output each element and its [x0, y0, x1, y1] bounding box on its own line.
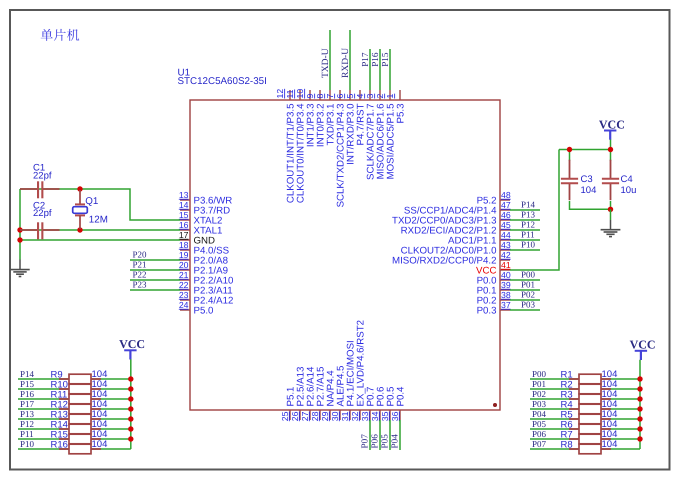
wire net P11 (left bank) [18, 438, 131, 440]
wire net P06 (right bank) [530, 438, 640, 440]
pin 25 stub [289, 410, 291, 420]
svg-text:16: 16 [179, 220, 189, 230]
node xtal1/Q1 junction [77, 227, 82, 232]
svg-text:28: 28 [310, 411, 320, 421]
pin 43 stub [500, 249, 510, 251]
wire net P06 [379, 420, 381, 450]
U1 anchor dot [493, 403, 497, 407]
svg-text:P02: P02 [521, 290, 535, 300]
svg-text:45: 45 [501, 220, 511, 230]
svg-text:Q1: Q1 [85, 196, 98, 207]
svg-text:P07: P07 [532, 439, 547, 449]
svg-text:7: 7 [325, 94, 335, 99]
svg-text:23: 23 [179, 290, 189, 300]
svg-text:P14: P14 [521, 200, 536, 210]
capacitor C2 [20, 222, 60, 239]
wire net P00 [510, 279, 540, 281]
svg-text:43: 43 [501, 240, 511, 250]
resistor R2 [569, 384, 611, 394]
pin 9 stub [319, 90, 321, 100]
node R5 rail junction [637, 416, 642, 421]
svg-text:P07: P07 [360, 434, 370, 449]
capacitor C4 [602, 160, 619, 201]
wire net P10 [510, 249, 540, 251]
wire net P15 (left bank) [18, 388, 131, 390]
pin 4 stub [369, 90, 371, 100]
node C4 top [608, 147, 613, 152]
wire cap bottom rail [570, 201, 611, 209]
wire net P22 [130, 279, 180, 281]
power VCC (left bank) [124, 350, 136, 359]
pin 48 stub [500, 199, 510, 201]
svg-text:R8: R8 [561, 440, 573, 451]
svg-text:P0.3: P0.3 [477, 305, 497, 316]
svg-text:22pf: 22pf [33, 208, 52, 219]
wire TXD-U [329, 30, 331, 90]
resistor R10 [59, 384, 101, 394]
node rail/gnd junction [17, 237, 22, 242]
node R3 rail junction [637, 396, 642, 401]
svg-text:P12: P12 [20, 419, 34, 429]
svg-text:20: 20 [179, 260, 189, 270]
resistor R14 [59, 424, 101, 434]
wire net P10 (left bank) [18, 448, 131, 450]
pin 17 stub [180, 239, 190, 241]
pin 40 stub [500, 279, 510, 281]
svg-text:P06: P06 [532, 429, 547, 439]
node R14 rail junction [128, 426, 133, 431]
svg-text:P23: P23 [133, 280, 148, 290]
wire net P05 (right bank) [530, 428, 640, 430]
node R15 rail junction [128, 436, 133, 441]
pin 20 stub [180, 269, 190, 271]
ground (decoupling) [601, 209, 621, 236]
svg-text:P00: P00 [532, 369, 547, 379]
svg-text:P13: P13 [20, 409, 35, 419]
svg-text:P03: P03 [521, 300, 536, 310]
wire net P07 [369, 420, 371, 450]
svg-text:38: 38 [501, 290, 511, 300]
capacitor C1 [20, 181, 60, 198]
pin 27 stub [309, 410, 311, 420]
wire net P03 [510, 309, 540, 311]
svg-text:40: 40 [501, 270, 511, 280]
svg-text:C4: C4 [621, 174, 633, 185]
svg-text:17: 17 [179, 230, 189, 240]
wire VCC rail (right bank) [639, 360, 641, 449]
svg-text:P16: P16 [370, 52, 380, 67]
pin 14 stub [180, 209, 190, 211]
wire net P00 (right bank) [530, 378, 640, 380]
wire net P02 (right bank) [530, 398, 640, 400]
crystal Q1 [73, 190, 88, 229]
wire C4 branch [610, 150, 612, 162]
svg-text:P03: P03 [532, 399, 547, 409]
wire net P02 [510, 299, 540, 301]
svg-text:2: 2 [375, 94, 385, 99]
wire net P07 (right bank) [530, 448, 640, 450]
resistor R3 [569, 394, 611, 404]
svg-text:5: 5 [345, 94, 355, 99]
pin 38 stub [500, 299, 510, 301]
svg-text:P04: P04 [532, 409, 547, 419]
wire net P15 [389, 49, 391, 90]
svg-text:41: 41 [501, 260, 511, 270]
svg-text:P22: P22 [133, 270, 147, 280]
svg-text:P02: P02 [532, 389, 546, 399]
wire net P14 [510, 209, 540, 211]
node C3 top [567, 147, 572, 152]
svg-text:27: 27 [300, 411, 310, 421]
wire net P14 (left bank) [18, 378, 131, 380]
svg-text:P13: P13 [521, 210, 536, 220]
wire net P12 (left bank) [18, 428, 131, 430]
pin 46 stub [500, 219, 510, 221]
svg-text:VCC: VCC [630, 338, 656, 352]
wire net P13 (left bank) [18, 418, 131, 420]
title text 单片机 [41, 29, 80, 41]
svg-text:104: 104 [581, 185, 597, 196]
resistor R12 [59, 404, 101, 414]
node R6 rail junction [637, 426, 642, 431]
svg-text:12: 12 [275, 89, 285, 99]
pin 44 stub [500, 239, 510, 241]
pin 45 stub [500, 229, 510, 231]
svg-text:4: 4 [355, 94, 365, 99]
svg-text:R16: R16 [51, 440, 68, 451]
pin 37 stub [500, 309, 510, 311]
pin 36 stub [399, 410, 401, 420]
svg-text:48: 48 [501, 190, 511, 200]
node R9 rail junction [128, 376, 133, 381]
pin 10 stub [309, 90, 311, 100]
wire net P16 (left bank) [18, 398, 131, 400]
wire net P11 [510, 239, 540, 241]
pin 41 stub [500, 269, 510, 271]
svg-text:6: 6 [335, 94, 345, 99]
node xtal2/Q1 junction [77, 186, 82, 191]
node R10 rail junction [128, 386, 133, 391]
svg-text:21: 21 [179, 270, 189, 280]
svg-text:33: 33 [360, 411, 370, 421]
pin 23 stub [180, 299, 190, 301]
resistor R5 [569, 414, 611, 424]
svg-text:P15: P15 [380, 52, 390, 67]
pin 6 stub [349, 90, 351, 100]
svg-text:25: 25 [280, 411, 290, 421]
svg-text:RXD-U: RXD-U [341, 48, 351, 78]
pin 22 stub [180, 289, 190, 291]
svg-text:P06: P06 [370, 434, 380, 449]
svg-text:P12: P12 [521, 220, 535, 230]
resistor R13 [59, 414, 101, 424]
svg-text:39: 39 [501, 280, 511, 290]
wire net P13 [510, 219, 540, 221]
node R13 rail junction [128, 416, 133, 421]
pin 12 stub [289, 90, 291, 100]
pin 16 stub [180, 229, 190, 231]
svg-text:P11: P11 [20, 429, 34, 439]
svg-text:26: 26 [290, 411, 300, 421]
svg-text:P05: P05 [532, 419, 547, 429]
svg-text:P05: P05 [380, 434, 390, 449]
svg-text:12M: 12M [89, 214, 108, 225]
pin 11 stub [299, 90, 301, 100]
svg-text:P10: P10 [521, 240, 536, 250]
pin 19 stub [180, 259, 190, 261]
svg-text:37: 37 [501, 300, 511, 310]
node R11 rail junction [128, 396, 133, 401]
svg-text:P17: P17 [360, 52, 370, 67]
svg-text:9: 9 [305, 94, 315, 99]
resistor R7 [569, 434, 611, 444]
svg-text:24: 24 [179, 300, 189, 310]
pin 35 stub [389, 410, 391, 420]
capacitor C3 [561, 160, 578, 201]
resistor R4 [569, 404, 611, 414]
wire net P04 [399, 420, 401, 450]
pin 8 stub [329, 90, 331, 100]
svg-text:P01: P01 [521, 280, 535, 290]
pin 7 stub [339, 90, 341, 100]
node R2 rail junction [637, 386, 642, 391]
wire net P21 [130, 269, 180, 271]
svg-text:14: 14 [179, 200, 189, 210]
svg-text:P0.4: P0.4 [396, 386, 407, 407]
svg-text:42: 42 [501, 250, 511, 260]
svg-text:10: 10 [295, 89, 305, 99]
svg-text:30: 30 [330, 411, 340, 421]
node rail/xtal1 junction [17, 227, 22, 232]
svg-text:15: 15 [179, 210, 189, 220]
svg-text:22: 22 [179, 280, 189, 290]
pin 30 stub [339, 410, 341, 420]
svg-text:P5.0: P5.0 [194, 305, 215, 316]
svg-text:10u: 10u [621, 185, 637, 196]
pin 15 stub [180, 219, 190, 221]
pin 31 stub [349, 410, 351, 420]
node C4 bottom [608, 207, 613, 212]
wire gnd row [20, 239, 180, 241]
pin 5 stub [359, 90, 361, 100]
svg-text:44: 44 [501, 230, 511, 240]
wire VCC rail (left bank) [130, 359, 132, 449]
svg-text:P01: P01 [532, 379, 546, 389]
wire net P01 (right bank) [530, 388, 640, 390]
svg-text:P21: P21 [133, 260, 147, 270]
svg-text:35: 35 [380, 411, 390, 421]
svg-text:31: 31 [340, 411, 350, 421]
wire net P05 [389, 420, 391, 450]
svg-text:C3: C3 [581, 174, 593, 185]
wire net P20 [130, 259, 180, 261]
svg-text:11: 11 [285, 89, 295, 98]
pin 18 stub [180, 249, 190, 251]
pin 29 stub [329, 410, 331, 420]
wire net P04 (right bank) [530, 418, 640, 420]
wire net P23 [130, 289, 180, 291]
svg-text:46: 46 [501, 210, 511, 220]
pin 42 stub [500, 259, 510, 261]
svg-text:34: 34 [370, 411, 380, 421]
node R4 rail junction [637, 406, 642, 411]
svg-text:13: 13 [179, 190, 189, 200]
svg-text:STC12C5A60S2-35I: STC12C5A60S2-35I [178, 76, 267, 87]
wire net P16 [379, 49, 381, 90]
pin 1 stub [399, 90, 401, 100]
pin 21 stub [180, 279, 190, 281]
pin 32 stub [359, 410, 361, 420]
svg-text:P20: P20 [133, 250, 148, 260]
wire left gnd rail [19, 189, 21, 260]
svg-text:8: 8 [315, 94, 325, 99]
svg-text:P14: P14 [20, 369, 35, 379]
pin 24 stub [180, 309, 190, 311]
mcu U1 body [190, 100, 500, 410]
pin 47 stub [500, 209, 510, 211]
pin 2 stub [389, 90, 391, 100]
svg-text:47: 47 [501, 200, 511, 210]
wire VCC top rail [559, 149, 611, 151]
svg-text:19: 19 [179, 250, 189, 260]
wire net P17 [369, 49, 371, 90]
resistor R11 [59, 394, 101, 404]
svg-text:104: 104 [92, 439, 108, 450]
resistor R6 [569, 424, 611, 434]
svg-text:29: 29 [320, 411, 330, 421]
power VCC (right bank) [635, 351, 647, 360]
wire net P12 [510, 229, 540, 231]
wire xtal1 net [20, 229, 180, 231]
wire net P03 (right bank) [530, 408, 640, 410]
wire net P17 (left bank) [18, 408, 131, 410]
svg-text:P17: P17 [20, 399, 35, 409]
pin 34 stub [379, 410, 381, 420]
wire RXD-U [349, 30, 351, 90]
svg-text:VCC: VCC [599, 117, 625, 131]
svg-text:P04: P04 [390, 434, 400, 449]
svg-text:3: 3 [365, 94, 375, 99]
power VCC (decoupling) [604, 131, 616, 140]
wire VCC pin41 [510, 150, 559, 271]
resistor R1 [569, 374, 611, 384]
pin 26 stub [299, 410, 301, 420]
svg-text:P5.3: P5.3 [396, 104, 407, 124]
pin 33 stub [369, 410, 371, 420]
svg-text:P16: P16 [20, 389, 35, 399]
wire xtal2 net [20, 189, 180, 220]
ground (crystal) [10, 260, 29, 277]
resistor R9 [59, 374, 101, 384]
svg-text:32: 32 [350, 411, 360, 421]
svg-text:P15: P15 [20, 379, 35, 389]
svg-text:104: 104 [602, 439, 618, 450]
node R7 rail junction [637, 436, 642, 441]
svg-text:VCC: VCC [119, 337, 145, 351]
svg-text:1: 1 [385, 94, 395, 99]
resistor R8 [569, 444, 611, 454]
wire C3 branch top [569, 150, 571, 162]
pin 28 stub [319, 410, 321, 420]
wire net P01 [510, 289, 540, 291]
resistor R15 [59, 434, 101, 444]
node R12 rail junction [128, 406, 133, 411]
svg-text:P11: P11 [521, 230, 535, 240]
svg-text:P10: P10 [20, 439, 35, 449]
svg-text:P00: P00 [521, 270, 536, 280]
pin 3 stub [379, 90, 381, 100]
node R1 rail junction [637, 376, 642, 381]
svg-text:22pf: 22pf [33, 170, 52, 181]
svg-text:TXD-U: TXD-U [321, 48, 331, 78]
pin 13 stub [180, 199, 190, 201]
pin 39 stub [500, 289, 510, 291]
wire VCC stem [610, 140, 612, 150]
resistor R16 [59, 444, 101, 454]
svg-text:36: 36 [390, 411, 400, 421]
svg-text:18: 18 [179, 240, 189, 250]
